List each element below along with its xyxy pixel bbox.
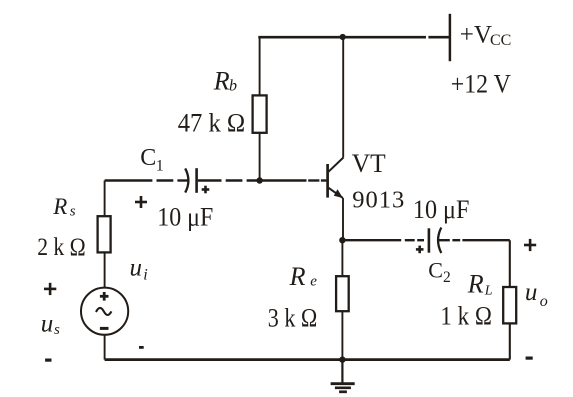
wire Rb top xyxy=(259,37,261,95)
source polarity plus xyxy=(100,292,109,301)
capacitor C1 xyxy=(185,168,196,193)
wire C2 to RL xyxy=(438,239,510,241)
label 3 k ohm xyxy=(268,303,318,332)
resistor RL xyxy=(503,287,516,323)
svg-text:b: b xyxy=(229,78,237,95)
svg-text:R: R xyxy=(213,67,230,96)
svg-text:1: 1 xyxy=(156,158,164,175)
wire input left segment xyxy=(105,179,188,181)
label 47 k ohm xyxy=(178,107,246,137)
svg-text:47 k Ω: 47 k Ω xyxy=(178,107,246,137)
label ui minus xyxy=(139,346,144,349)
svg-text:R: R xyxy=(467,270,484,299)
svg-text:s: s xyxy=(70,204,76,220)
label 2 k ohm xyxy=(37,232,85,261)
label uo plus xyxy=(524,239,536,251)
svg-text:1 k Ω: 1 k Ω xyxy=(440,301,492,330)
svg-text:VT: VT xyxy=(352,149,386,178)
wire Rs to source xyxy=(104,252,106,287)
wire right vertical bottom xyxy=(509,323,511,359)
svg-text:3 k Ω: 3 k Ω xyxy=(268,303,318,332)
resistor Rs xyxy=(98,216,111,252)
label +VCC xyxy=(460,22,512,50)
label us xyxy=(41,310,60,338)
wire bottom rail xyxy=(105,358,510,361)
label 1 k ohm xyxy=(440,301,492,330)
junction dot base node xyxy=(256,177,262,183)
capacitor C2 xyxy=(429,228,441,254)
capacitor C2 polarity plus xyxy=(416,246,424,254)
wire top rail xyxy=(258,36,449,39)
svg-text:9013: 9013 xyxy=(352,187,405,214)
svg-text:10 μF: 10 μF xyxy=(157,201,213,231)
label Re xyxy=(289,262,318,291)
label Rs xyxy=(52,194,76,220)
ground xyxy=(331,360,355,392)
svg-text:2 k Ω: 2 k Ω xyxy=(37,232,85,261)
label us minus xyxy=(45,359,51,362)
label 10 uF input xyxy=(157,201,213,231)
wire C1 to base xyxy=(198,179,327,181)
label us plus xyxy=(44,283,56,295)
wire right vertical top xyxy=(509,240,511,287)
capacitor C1 polarity plus xyxy=(202,186,210,194)
resistor Rb xyxy=(253,95,267,132)
label ui xyxy=(130,254,148,283)
svg-text:o: o xyxy=(540,293,548,310)
label uo xyxy=(525,279,548,310)
junction dot ground node xyxy=(339,356,345,362)
label +12 V xyxy=(451,70,511,99)
label 9013 xyxy=(352,187,405,214)
svg-text:2: 2 xyxy=(443,269,451,286)
svg-text:i: i xyxy=(143,266,147,283)
svg-text:+V: +V xyxy=(460,22,492,49)
label 10 uF output xyxy=(413,194,470,224)
wire emitter node to C2 xyxy=(342,239,424,241)
label VT xyxy=(352,149,386,178)
svg-text:R: R xyxy=(289,262,306,291)
label uo minus xyxy=(526,357,533,360)
wire Rb bottom xyxy=(259,133,261,181)
svg-text:u: u xyxy=(525,279,538,306)
transistor VT xyxy=(328,158,344,199)
label ui plus xyxy=(135,196,147,208)
wire emitter down xyxy=(342,198,344,240)
junction dot emitter node xyxy=(339,237,345,243)
svg-text:u: u xyxy=(130,254,143,281)
svg-text:e: e xyxy=(310,274,317,290)
label Rb xyxy=(213,67,237,96)
label C2 xyxy=(428,257,451,286)
label C1 xyxy=(140,145,164,175)
source sine symbol xyxy=(96,308,111,315)
wire collector xyxy=(342,37,344,157)
svg-text:L: L xyxy=(484,284,493,299)
resistor Re xyxy=(336,276,349,311)
svg-text:C: C xyxy=(428,257,443,282)
svg-text:R: R xyxy=(52,194,67,219)
power terminal +VCC bar xyxy=(449,14,452,61)
wire Re bottom xyxy=(341,311,343,359)
svg-text:s: s xyxy=(54,322,60,338)
svg-text:C: C xyxy=(140,145,156,171)
svg-text:+12 V: +12 V xyxy=(451,70,511,99)
source us circle xyxy=(81,288,128,335)
junction dot collector top xyxy=(340,34,346,40)
wire Re top xyxy=(341,240,343,276)
wire source to rail xyxy=(104,335,106,360)
label RL xyxy=(467,270,493,299)
svg-text:CC: CC xyxy=(490,32,511,49)
svg-text:10 μF: 10 μF xyxy=(413,194,470,224)
wire left vertical top xyxy=(104,181,106,217)
svg-text:u: u xyxy=(41,310,54,337)
source polarity minus xyxy=(100,327,109,330)
